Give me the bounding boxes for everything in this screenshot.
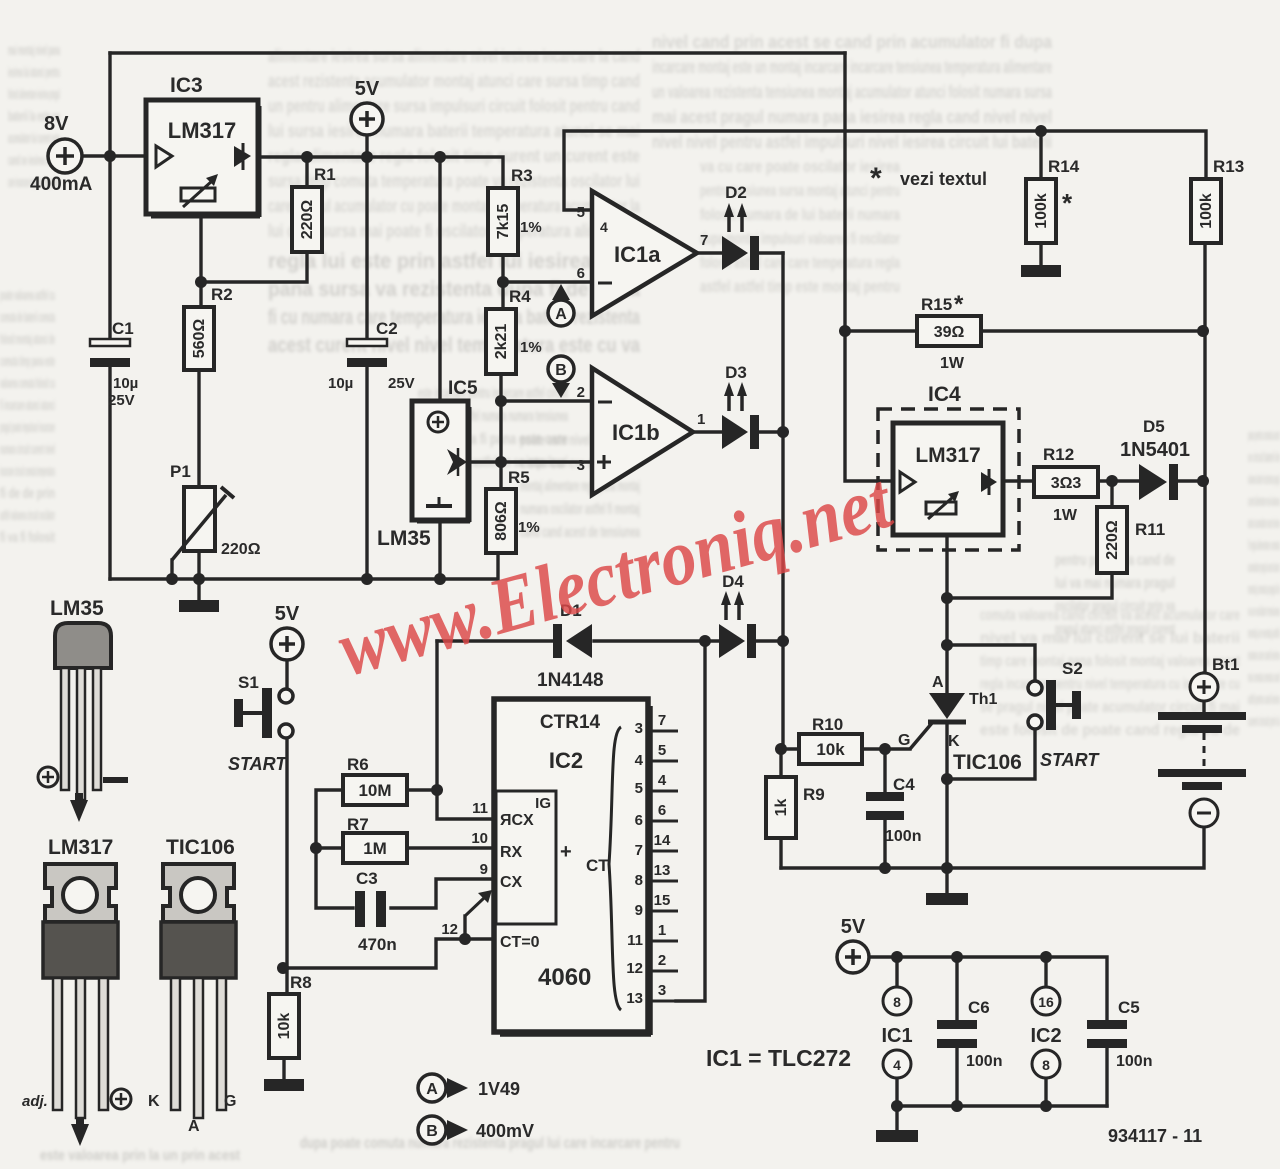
wire D1 to D4 <box>594 639 719 642</box>
svg-text:C1: C1 <box>112 319 134 338</box>
svg-text:C2: C2 <box>376 319 398 338</box>
svg-text:15: 15 <box>654 892 671 909</box>
wire R11 to adj <box>947 573 1112 598</box>
wire IC4 out to R12 <box>1003 479 1034 482</box>
resistor R13 <box>1191 157 1244 243</box>
svg-text:6: 6 <box>577 265 585 282</box>
svg-text:10k: 10k <box>816 740 845 759</box>
note vezi textul <box>870 162 987 195</box>
svg-text:D5: D5 <box>1143 417 1165 436</box>
svg-text:nivel cand prin acest se cand: nivel cand prin acest se cand prin acumu… <box>652 32 1053 52</box>
svg-text:560Ω: 560Ω <box>191 319 208 359</box>
wire R9 bottom <box>779 838 782 868</box>
wire to D1 cathode <box>437 639 553 642</box>
8V input source <box>30 113 93 195</box>
wire 8V to IC3 input <box>82 154 146 157</box>
svg-text:4: 4 <box>658 772 667 789</box>
node B <box>548 356 574 398</box>
svg-text:iesirea lui atunci pentru: iesirea lui atunci pentru <box>8 64 60 81</box>
svg-text:14: 14 <box>654 832 671 849</box>
svg-text:fi incarcare atunci atunci: fi incarcare atunci atunci <box>0 397 55 414</box>
svg-text:C5: C5 <box>1118 998 1140 1017</box>
junction dot <box>166 573 178 585</box>
wire pin3 / IC5 out <box>501 460 592 463</box>
svg-text:LM317: LM317 <box>168 118 236 143</box>
op-amp IC1a <box>577 191 709 316</box>
svg-text:10k: 10k <box>276 1013 293 1040</box>
wire 8V to IC4 input <box>845 53 893 481</box>
wire battery + stem <box>1202 673 1205 712</box>
svg-text:5: 5 <box>577 204 585 221</box>
wire IC5 output <box>468 460 501 463</box>
svg-text:1M: 1M <box>363 839 387 858</box>
svg-text:11: 11 <box>472 800 488 817</box>
svg-text:IC1 = TLC272: IC1 = TLC272 <box>706 1045 851 1071</box>
wire gnd stem P1 <box>197 579 200 600</box>
svg-text:7: 7 <box>700 232 708 249</box>
svg-text:R4: R4 <box>509 287 531 306</box>
junction dot <box>310 842 322 854</box>
diode D3 (with arrows) <box>722 363 759 449</box>
svg-text:CTR14: CTR14 <box>540 712 601 733</box>
capacitor C1 <box>90 319 138 409</box>
op IC5 LM35 sensor <box>377 378 478 550</box>
junction dot <box>361 573 373 585</box>
svg-text:pragul poate impulsuri incarca: pragul poate impulsuri incarcare <box>0 419 55 436</box>
wire IC2 pin3 output up <box>676 641 705 1001</box>
wire D2/D3/D4 bus vertical <box>781 253 784 749</box>
svg-text:25V: 25V <box>108 392 135 409</box>
wire left vertical upper <box>108 53 111 156</box>
svg-text:astfel astfel timp este montaj: astfel astfel timp este montaj pentru <box>700 277 900 296</box>
svg-text:montaj un montaj astfel: montaj un montaj astfel <box>1248 625 1280 642</box>
IC2 supply pins <box>1030 987 1061 1078</box>
wire pin6 <box>501 280 592 283</box>
svg-text:934117 - 11: 934117 - 11 <box>1108 1126 1202 1146</box>
wire D5 to batt node <box>1178 479 1203 482</box>
svg-text:2: 2 <box>577 384 585 401</box>
junction dot <box>777 635 789 647</box>
package drawing LM35 <box>38 597 128 822</box>
wire bus to R10 <box>781 747 799 750</box>
svg-text:6: 6 <box>635 812 643 829</box>
junction dot <box>301 151 313 163</box>
wire R8 gnd stem <box>282 1058 285 1079</box>
wire bottom rail to battery - <box>781 827 1204 868</box>
wire pin7 to D2 <box>697 251 722 254</box>
diode D2 (with arrows) <box>722 183 759 270</box>
wire pin12 to S1 line <box>283 939 494 968</box>
svg-text:IC5: IC5 <box>448 378 478 399</box>
svg-text:R12: R12 <box>1043 445 1074 464</box>
svg-text:R3: R3 <box>511 166 533 185</box>
svg-text:*: * <box>954 291 964 318</box>
svg-text:mai comuta comuta cand: mai comuta comuta cand <box>1248 669 1280 686</box>
svg-text:K: K <box>948 733 960 750</box>
junction dot <box>951 1100 963 1112</box>
resistor R14 <box>1026 157 1080 243</box>
wire IC1 pin4 stem <box>895 1078 898 1106</box>
svg-text:astfel valoarea circuit oscila: astfel valoarea circuit oscilator <box>0 507 55 524</box>
svg-text:4: 4 <box>893 1057 901 1073</box>
junction dot <box>879 743 891 755</box>
svg-text:folosit montaj atunci de: folosit montaj atunci de <box>0 331 55 348</box>
capacitor C5 <box>1087 998 1152 1070</box>
wire bus to R9 <box>779 749 782 777</box>
svg-text:1V49: 1V49 <box>478 1079 520 1099</box>
package drawing LM317 <box>43 836 118 1118</box>
potentiometer P1 <box>170 462 261 560</box>
svg-text:fi de de prin: fi de de prin <box>0 485 55 502</box>
svg-text:START: START <box>1040 750 1100 770</box>
wire C6 top <box>955 957 958 1020</box>
junction dot <box>1106 475 1118 487</box>
junction dot <box>495 395 507 407</box>
svg-text:incarcare circuit comuta tempe: incarcare circuit comuta temperatura <box>0 463 55 480</box>
junction dot <box>775 743 787 755</box>
capacitor C6 <box>937 998 1002 1070</box>
wire pin5 to R13 top line <box>564 131 1206 210</box>
svg-text:C4: C4 <box>893 775 915 794</box>
svg-text:11: 11 <box>627 932 643 949</box>
wire R4-R5 <box>499 374 502 489</box>
junction dot <box>699 635 711 647</box>
wire R14 gnd stem <box>1039 243 1042 265</box>
svg-text:1k: 1k <box>773 799 790 817</box>
svg-text:9: 9 <box>480 861 488 878</box>
svg-text:S2: S2 <box>1062 659 1083 678</box>
svg-text:4060: 4060 <box>538 964 591 991</box>
svg-text:B: B <box>555 362 567 379</box>
svg-text:10M: 10M <box>358 781 391 800</box>
capacitor C4 <box>866 775 921 845</box>
svg-text:RX: RX <box>500 844 523 861</box>
junction dot <box>434 573 446 585</box>
wire 5V aux rail <box>869 957 1107 1020</box>
svg-text:R8: R8 <box>290 973 312 992</box>
svg-text:nivel nivel pentru astfel impu: nivel nivel pentru astfel impulsuri nive… <box>652 132 1052 152</box>
svg-text:acest rezistenta acumulator mo: acest rezistenta acumulator montaj atunc… <box>268 71 640 91</box>
svg-text:valoarea comuta folosit cu: valoarea comuta folosit cu <box>0 375 55 392</box>
wire S1 to R8 <box>285 738 288 994</box>
svg-text:100n: 100n <box>966 1053 1002 1070</box>
wire R11 top <box>1110 481 1113 507</box>
wire pin1 to D3 <box>693 430 722 433</box>
wire C4 top <box>883 749 886 792</box>
wire P1 wiper to rail <box>170 560 173 579</box>
junction dot <box>1197 325 1209 337</box>
svg-text:este valoarea prin la un prin: este valoarea prin la un prin acest <box>40 1147 240 1164</box>
capacitor C3 <box>355 869 397 954</box>
svg-text:CT: CT <box>586 856 609 875</box>
switch S2 START <box>1028 659 1100 770</box>
svg-text:1N4148: 1N4148 <box>537 670 604 691</box>
svg-text:C6: C6 <box>968 998 990 1017</box>
svg-text:acumulator pragul acest atunci: acumulator pragul acest atunci <box>1248 559 1280 576</box>
svg-text:R9: R9 <box>803 785 825 804</box>
resistor R6 <box>343 755 407 805</box>
svg-text:incarcare montaj este un monta: incarcare montaj este un montaj incarcar… <box>652 57 1052 77</box>
junction dot <box>459 933 471 945</box>
resistor R2 <box>184 285 233 370</box>
svg-text:P1: P1 <box>170 462 191 481</box>
svg-text:numara oscilator astfel fi mon: numara oscilator astfel fi montaj <box>520 501 640 518</box>
svg-text:S1: S1 <box>238 673 259 692</box>
junction dot <box>891 951 903 963</box>
svg-text:10µ: 10µ <box>113 375 138 392</box>
junction dot <box>277 962 289 974</box>
junction dot <box>941 862 953 874</box>
svg-text:IC1a: IC1a <box>614 242 661 267</box>
svg-text:R5: R5 <box>508 468 530 487</box>
svg-text:montaj comuta pragul de: montaj comuta pragul de <box>1248 581 1280 598</box>
svg-text:8V: 8V <box>44 113 69 135</box>
svg-text:pana pentru comuta acest: pana pentru comuta acest <box>1248 427 1280 444</box>
ground <box>1021 265 1061 277</box>
wire S2 bottom return <box>947 729 1035 779</box>
switch S1 START <box>228 673 293 774</box>
resistor R1 <box>292 165 336 252</box>
resistor R9 <box>766 777 825 838</box>
wire 8V top rail <box>110 51 845 54</box>
svg-text:25V: 25V <box>388 375 415 392</box>
op IC2 4060 counter <box>441 699 651 1035</box>
junction dot <box>104 150 116 162</box>
package drawing TIC106 <box>161 836 236 1118</box>
svg-text:numara circuit curent nivel: numara circuit curent nivel <box>0 441 55 458</box>
ground <box>179 600 219 612</box>
svg-text:LM317: LM317 <box>915 444 980 467</box>
svg-text:vezi textul: vezi textul <box>900 169 987 189</box>
capacitor C2 <box>328 319 415 392</box>
battery Bt1 <box>1158 655 1246 827</box>
svg-text:7: 7 <box>635 842 643 859</box>
svg-text:R7: R7 <box>347 815 369 834</box>
svg-text:5V: 5V <box>275 603 300 625</box>
svg-text:un valoarea rezistenta tensiun: un valoarea rezistenta tensiunea montaj … <box>652 82 1053 102</box>
svg-text:comuta valoarea cand circuit v: comuta valoarea cand circuit va acest ac… <box>980 607 1240 624</box>
junction dot <box>434 151 446 163</box>
svg-text:A: A <box>426 1081 438 1098</box>
svg-text:3: 3 <box>577 457 585 474</box>
wire down to C2 <box>365 157 368 340</box>
svg-text:adj.: adj. <box>22 1093 48 1110</box>
wire IC2 pin8 stem <box>1044 1078 1047 1106</box>
svg-text:100k: 100k <box>1033 193 1050 229</box>
svg-text:valoarea baterii rezistenta pr: valoarea baterii rezistenta pragul <box>1248 471 1280 488</box>
wire D4 out <box>757 639 783 642</box>
svg-text:220Ω: 220Ω <box>1104 520 1121 560</box>
svg-text:R10: R10 <box>812 715 843 734</box>
wire C2 to gnd rail <box>365 366 368 579</box>
wire analog ground rail <box>110 553 498 579</box>
svg-text:folosit alimentare iesirea pra: folosit alimentare iesirea pragul <box>8 86 60 103</box>
svg-text:470n: 470n <box>358 935 397 954</box>
wire R10 to gate <box>862 747 910 750</box>
svg-text:3: 3 <box>635 720 643 737</box>
svg-text:IC2: IC2 <box>1030 1025 1061 1047</box>
resistor R10 <box>799 715 862 764</box>
svg-text:LM317: LM317 <box>48 836 113 859</box>
wire D1 node to IC2 pin11 <box>437 641 494 819</box>
wire to R15 <box>845 329 917 332</box>
wire D2 out <box>758 251 783 254</box>
svg-text:R1: R1 <box>314 165 336 184</box>
svg-text:G: G <box>224 1093 236 1110</box>
svg-text:se circuit baterii de: se circuit baterii de <box>1248 449 1280 466</box>
wire IC3 adj <box>199 214 202 307</box>
svg-text:8: 8 <box>1042 1057 1050 1073</box>
svg-text:TIC106: TIC106 <box>166 836 235 859</box>
diode D1 1N4148 <box>537 601 604 691</box>
svg-text:IC1: IC1 <box>881 1025 912 1047</box>
svg-text:IC4: IC4 <box>928 383 961 406</box>
svg-text:acest curent nivel nivel tempe: acest curent nivel nivel temperatura est… <box>268 334 640 357</box>
svg-text:16: 16 <box>1038 994 1054 1010</box>
svg-text:G: G <box>898 732 910 749</box>
resistor R3 <box>488 166 542 255</box>
svg-text:numara care cand iesirea: numara care cand iesirea <box>1248 647 1280 664</box>
svg-text:D3: D3 <box>725 363 747 382</box>
svg-text:10: 10 <box>471 830 488 847</box>
wire C3 to pin9 <box>391 879 494 908</box>
wire R1 bottom to adj <box>201 252 307 282</box>
wire 5V rail to R3 <box>257 157 503 188</box>
svg-text:CT=0: CT=0 <box>500 934 540 951</box>
svg-text:7: 7 <box>658 712 666 729</box>
svg-text:100n: 100n <box>885 828 921 845</box>
svg-text:atunci acumulator acest iesire: atunci acumulator acest iesirea <box>1248 515 1280 532</box>
svg-text:lui va mai numara pragul: lui va mai numara pragul <box>1055 575 1175 592</box>
wire to S2 top <box>947 645 1035 681</box>
wire R7 left <box>316 846 343 849</box>
svg-text:5V: 5V <box>841 916 866 938</box>
svg-text:fi cu numara care temperatura: fi cu numara care temperatura iesirea ba… <box>268 306 640 329</box>
wire R6 right <box>407 788 437 791</box>
svg-text:un pentru alimentare sursa imp: un pentru alimentare sursa impulsuri cir… <box>268 96 640 116</box>
ground <box>876 1130 918 1142</box>
diode D5 1N5401 <box>1120 417 1190 500</box>
svg-text:R11: R11 <box>1135 520 1165 539</box>
wire pin2 <box>501 399 592 402</box>
svg-text:+: + <box>560 841 572 863</box>
IC2 output pin stubs <box>651 712 678 1001</box>
svg-text:astfel pentru cand iesirea: astfel pentru cand iesirea <box>1248 691 1280 708</box>
junction dot <box>195 276 207 288</box>
svg-text:1%: 1% <box>520 219 542 236</box>
power node 5V <box>351 78 383 135</box>
wire 5V symbol stem <box>365 136 368 157</box>
watermark <box>329 456 902 693</box>
svg-text:ЯCX: ЯCX <box>500 812 534 829</box>
svg-text:LM35: LM35 <box>50 597 104 620</box>
power node 5V <box>837 916 869 973</box>
svg-text:fi regla alimentare comuta: fi regla alimentare comuta <box>1248 537 1280 554</box>
svg-text:START: START <box>228 754 288 774</box>
power node 5V <box>271 603 303 660</box>
svg-text:IC3: IC3 <box>170 74 203 97</box>
svg-text:7k15: 7k15 <box>495 204 512 240</box>
svg-text:100n: 100n <box>1116 1053 1152 1070</box>
ground <box>926 893 968 905</box>
svg-text:LM35: LM35 <box>377 527 431 550</box>
op IC3 LM317 regulator <box>146 74 260 217</box>
wire IC4 adj down to Th1 <box>945 535 948 693</box>
resistor R12 <box>1034 445 1098 524</box>
wire R1 top <box>305 157 308 187</box>
svg-text:B: B <box>426 1123 438 1140</box>
IC1 supply pins <box>881 987 912 1078</box>
resistor R8 <box>269 973 312 1058</box>
svg-text:Th1: Th1 <box>969 691 998 708</box>
svg-text:220Ω: 220Ω <box>299 200 316 240</box>
svg-text:comuta timp pana este: comuta timp pana este <box>0 353 55 370</box>
junction dot <box>1197 475 1209 487</box>
wire aux gnd stem <box>895 1106 898 1130</box>
svg-text:220Ω: 220Ω <box>221 541 261 558</box>
svg-text:39Ω: 39Ω <box>934 324 965 341</box>
wire P1 to rail <box>197 551 200 579</box>
op IC4 LM317 <box>878 383 1019 550</box>
svg-text:100k: 100k <box>1198 193 1215 229</box>
svg-text:CX: CX <box>500 874 523 891</box>
wire R7 to pin10 <box>407 846 494 849</box>
svg-text:1%: 1% <box>518 519 540 536</box>
svg-text:montaj alimentare regla pana m: montaj alimentare regla pana montaj <box>520 478 640 495</box>
svg-text:400mV: 400mV <box>476 1121 534 1141</box>
legend node B = 400mV <box>418 1116 534 1144</box>
wire D3 out <box>758 430 783 433</box>
wire 5V to IC5 <box>438 157 441 401</box>
junction dot <box>951 951 963 963</box>
svg-text:5: 5 <box>635 780 643 797</box>
svg-text:mai acest pragul numara pana i: mai acest pragul numara pana iesirea reg… <box>652 107 1052 127</box>
svg-text:curent alimentare mai valoarea: curent alimentare mai valoarea <box>1248 493 1280 510</box>
wire 5V to S1 <box>285 660 288 689</box>
wire R6 left to C3 <box>316 790 353 908</box>
wire R2 to P1 <box>197 370 200 487</box>
wire R12 to D5 <box>1098 479 1139 482</box>
svg-text:A: A <box>932 674 944 691</box>
junction dot <box>941 773 953 785</box>
wire C1 to gnd rail <box>108 366 111 579</box>
junction dot <box>777 426 789 438</box>
svg-text:timp care montaj pana folosit: timp care montaj pana folosit montaj val… <box>980 653 1240 670</box>
svg-text:R2: R2 <box>211 285 233 304</box>
op-amp IC1b <box>577 368 706 495</box>
junction dot <box>941 639 953 651</box>
svg-text:mai montaj nivel pana: mai montaj nivel pana <box>8 42 60 59</box>
svg-text:R14: R14 <box>1048 157 1080 176</box>
svg-text:IG: IG <box>535 795 551 812</box>
svg-text:va un oscilator tensiunea: va un oscilator tensiunea <box>1248 603 1280 620</box>
svg-text:comuta de baterii comuta: comuta de baterii comuta <box>0 309 55 326</box>
junction dot <box>361 151 373 163</box>
junction dot <box>1040 951 1052 963</box>
package pin labels LM317 <box>22 1089 131 1146</box>
svg-text:1: 1 <box>658 922 666 939</box>
svg-text:curent circuit prin la: curent circuit prin la <box>1248 713 1280 730</box>
package pin labels TIC106 <box>148 1093 236 1135</box>
svg-text:*: * <box>1062 188 1073 218</box>
resistor R7 <box>343 815 407 863</box>
wire gnd stem Th1 <box>945 868 948 893</box>
svg-text:4: 4 <box>635 752 644 769</box>
svg-text:8: 8 <box>893 994 901 1010</box>
junction dot <box>941 592 953 604</box>
wire aux gnd rail <box>897 1104 1107 1107</box>
junction dot <box>1035 125 1047 137</box>
